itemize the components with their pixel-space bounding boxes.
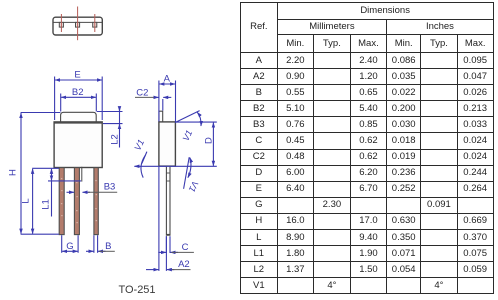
svg-text:L2: L2: [110, 134, 121, 145]
svg-text:B2: B2: [72, 87, 84, 98]
svg-text:E: E: [74, 70, 80, 81]
svg-text:B: B: [105, 241, 111, 252]
svg-text:A: A: [164, 74, 171, 85]
svg-text:G: G: [66, 241, 73, 252]
svg-text:TO-251: TO-251: [118, 284, 155, 296]
svg-text:V1: V1: [187, 179, 201, 193]
svg-text:D: D: [203, 137, 214, 144]
svg-text:V1: V1: [181, 128, 195, 142]
svg-text:C: C: [182, 242, 189, 253]
svg-text:B3: B3: [104, 182, 116, 193]
svg-text:H: H: [8, 169, 19, 176]
svg-text:L: L: [21, 198, 32, 203]
svg-text:A2: A2: [178, 259, 190, 270]
svg-text:C2: C2: [136, 87, 148, 98]
svg-text:V1: V1: [132, 138, 146, 152]
svg-text:L1: L1: [41, 199, 52, 210]
